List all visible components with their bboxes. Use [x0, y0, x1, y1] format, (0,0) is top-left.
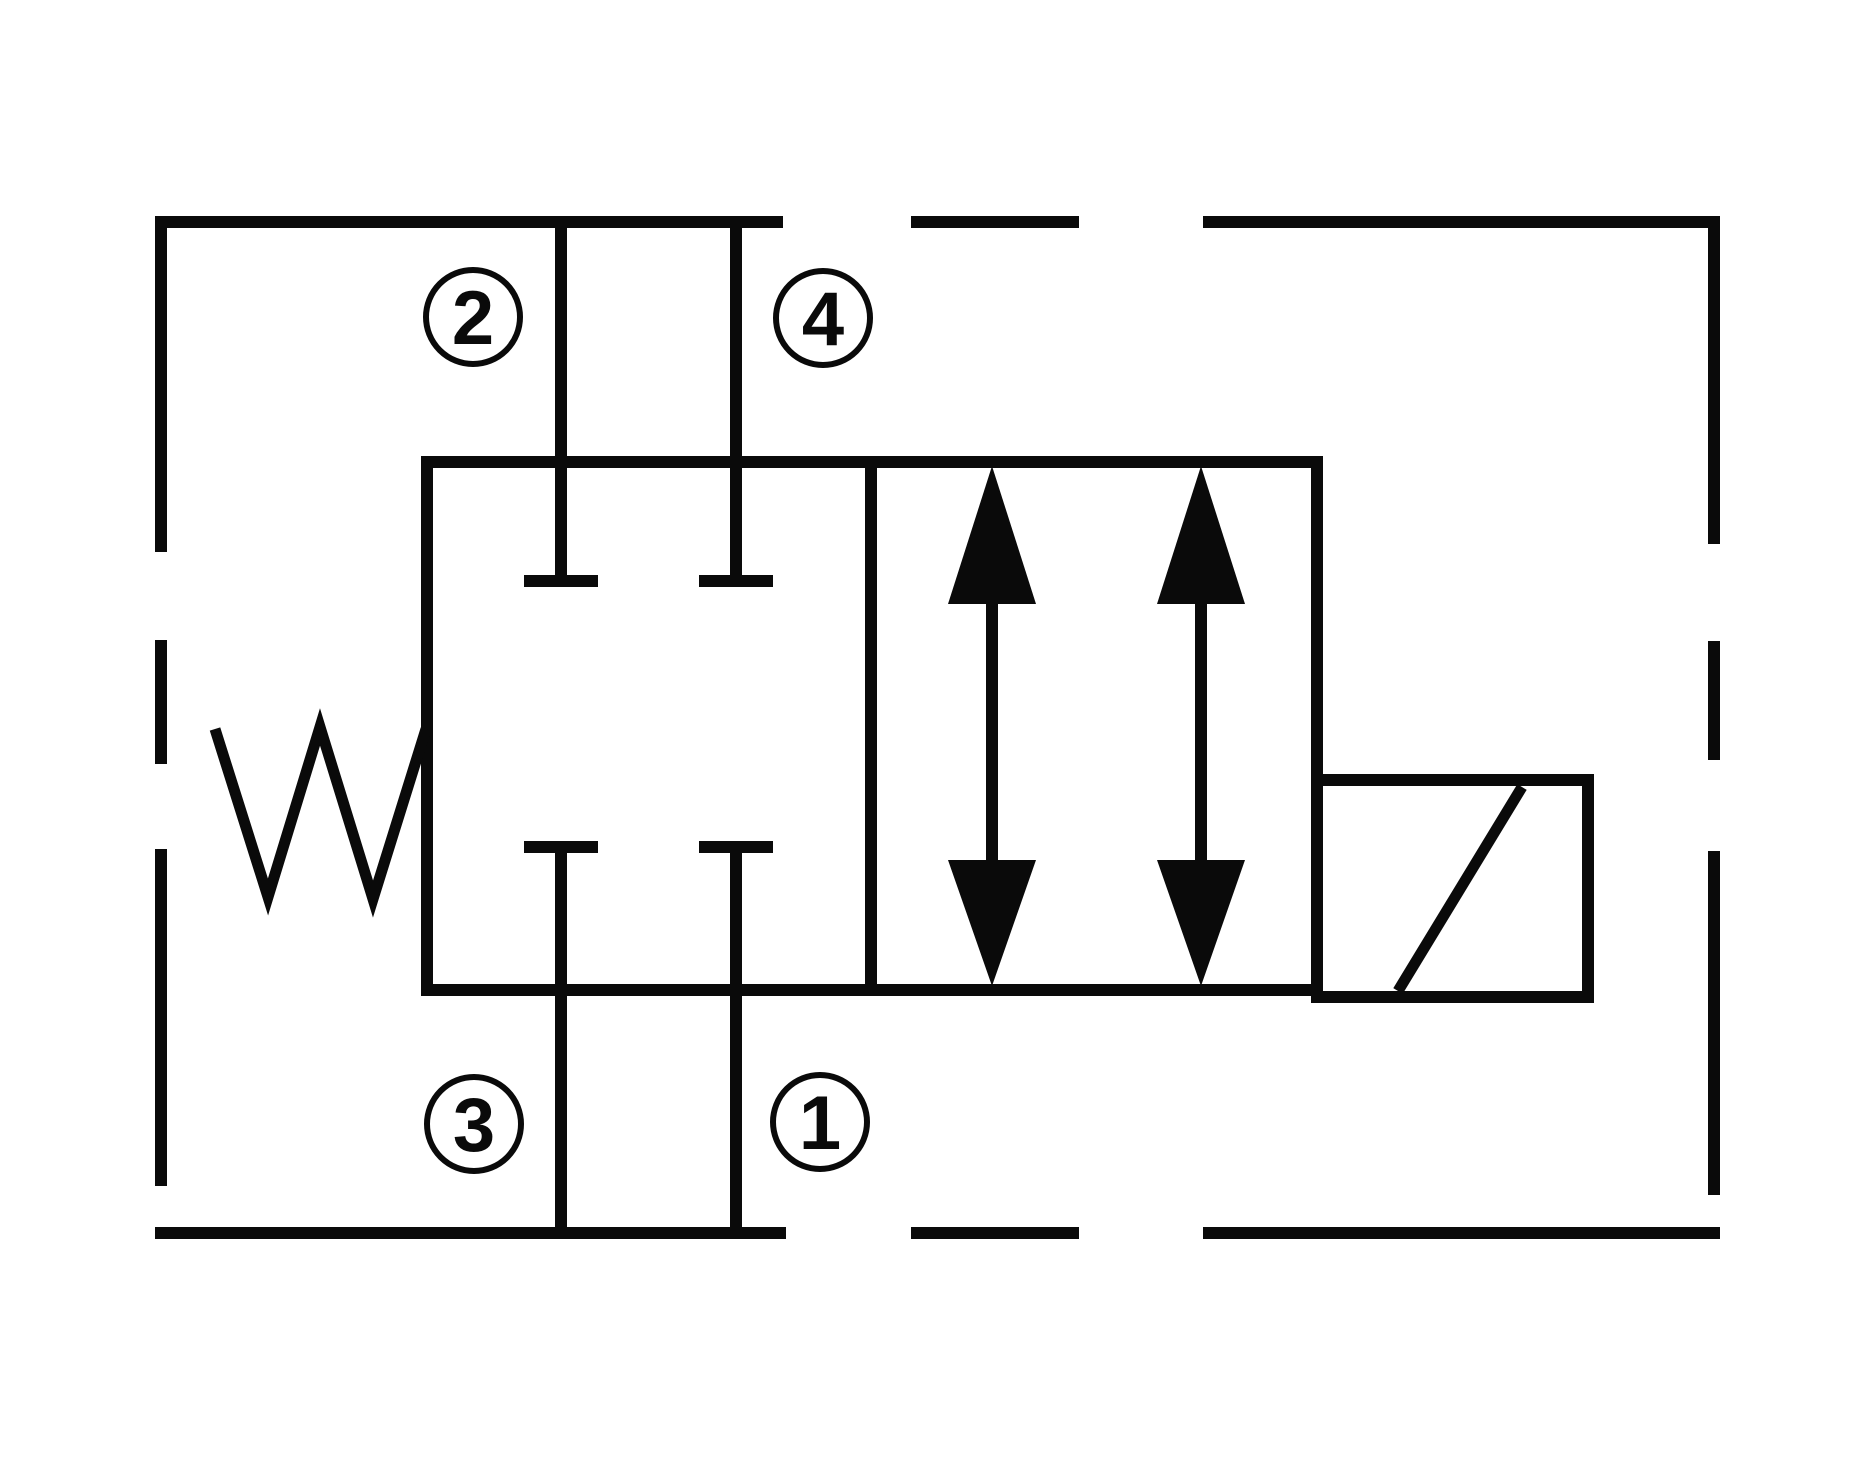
envelope left border dash 2: [155, 640, 167, 764]
flow arrow right stem: [1195, 595, 1207, 870]
envelope right border dash 1: [1708, 216, 1720, 544]
envelope top border dash 1: [155, 216, 783, 228]
envelope bottom border dash 1: [155, 1227, 786, 1239]
port 2 label circle: [426, 270, 520, 364]
port 4 label circle: [776, 271, 870, 365]
svg-text:2: 2: [452, 276, 494, 361]
port 1 blocked tick: [699, 841, 773, 853]
return spring: [215, 727, 426, 899]
flow arrow left head up: [948, 466, 1036, 604]
valve position divider: [865, 456, 877, 996]
envelope bottom border dash 3: [1203, 1227, 1720, 1239]
envelope top border dash 2: [911, 216, 1079, 228]
svg-text:1: 1: [799, 1081, 841, 1166]
port 3 label circle: [427, 1077, 521, 1171]
envelope right border dash 3: [1708, 851, 1720, 1195]
flow arrow left head down: [948, 860, 1036, 986]
solenoid diagonal: [1398, 787, 1522, 991]
solenoid box: [1317, 780, 1588, 997]
envelope top border dash 3: [1203, 216, 1720, 228]
port 2 line: [555, 216, 567, 587]
svg-text:4: 4: [802, 277, 844, 362]
port 3 line: [555, 841, 567, 1239]
flow arrow right head up: [1157, 466, 1245, 604]
envelope left border dash 1: [155, 216, 167, 552]
envelope right border dash 2: [1708, 641, 1720, 760]
port 2 blocked tick: [524, 575, 598, 587]
port 1 line: [730, 841, 742, 1239]
port 1 label circle: [773, 1075, 867, 1169]
envelope bottom border dash 2: [911, 1227, 1079, 1239]
envelope left border dash 3: [155, 849, 167, 1186]
flow arrow right head down: [1157, 860, 1245, 986]
valve body outline: [427, 462, 1317, 990]
port 4 line: [730, 216, 742, 587]
port 4 blocked tick: [699, 575, 773, 587]
flow arrow left stem: [986, 595, 998, 870]
svg-text:3: 3: [453, 1083, 495, 1168]
port 3 blocked tick: [524, 841, 598, 853]
